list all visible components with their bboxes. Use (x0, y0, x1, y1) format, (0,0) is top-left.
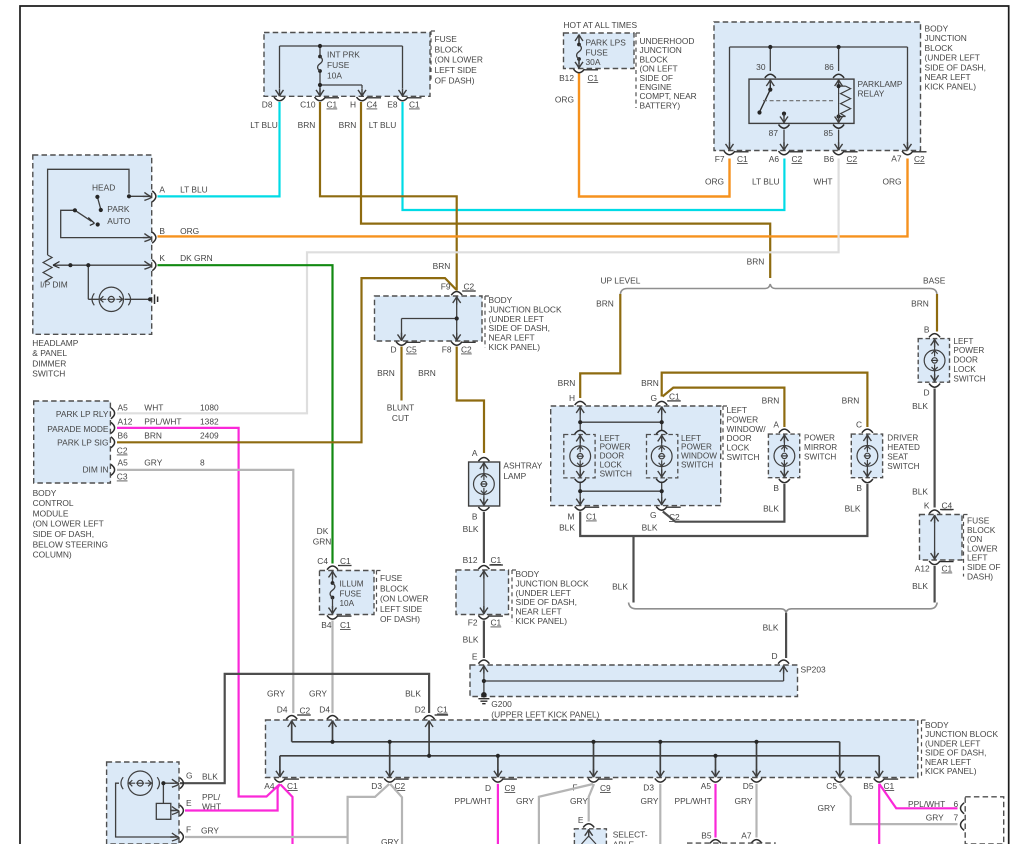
pin K C4 (right fuse block) (924, 501, 954, 514)
pin D5 (bottom) (743, 778, 762, 791)
svg-text:BRN: BRN (433, 261, 451, 271)
svg-text:30A: 30A (586, 57, 601, 67)
fuse INT PRK 10A (318, 55, 323, 73)
svg-text:B4: B4 (321, 620, 332, 630)
svg-text:BRN: BRN (747, 257, 765, 267)
svg-text:BRN: BRN (762, 396, 780, 406)
pin C10 C1 (300, 97, 339, 109)
svg-text:ORG: ORG (882, 177, 901, 187)
svg-text:SWITCH: SWITCH (32, 369, 65, 379)
svg-text:K: K (924, 501, 930, 511)
pin F (170, 833, 179, 841)
svg-text:B5: B5 (701, 831, 712, 841)
wire LT BLU E8 to relay A6 (403, 102, 785, 210)
wire BLK lamp G to D2 C1 (180, 674, 429, 783)
svg-text:C4: C4 (317, 556, 328, 566)
svg-text:BLK: BLK (763, 623, 779, 633)
svg-text:POWER: POWER (804, 434, 835, 443)
svg-text:C2: C2 (461, 345, 472, 355)
svg-text:BRN: BRN (298, 120, 316, 130)
wire GRY D3 down (659, 784, 661, 844)
svg-text:A5: A5 (118, 403, 129, 413)
svg-text:DASH): DASH) (967, 571, 993, 581)
svg-text:C1: C1 (588, 73, 599, 83)
svg-text:F7: F7 (715, 154, 725, 164)
svg-text:B: B (159, 226, 165, 236)
left power window/door lock switch assembly (551, 406, 721, 506)
body junction block (bottom, large) (266, 720, 918, 778)
relay switch contacts (766, 80, 774, 88)
svg-text:C: C (856, 420, 862, 430)
svg-text:A4: A4 (264, 781, 275, 791)
svg-text:KICK PANEL): KICK PANEL) (925, 766, 977, 776)
svg-text:LEFT: LEFT (681, 434, 701, 443)
pin F2 C1 (468, 615, 503, 627)
fuse block FB1 (on lower left side of dash) (264, 33, 430, 97)
junction dots on buses (330, 740, 334, 744)
svg-text:D: D (390, 345, 396, 355)
pin D4 (top) (319, 705, 338, 720)
bottom edge arrows (276, 769, 284, 777)
svg-text:BLK: BLK (405, 689, 421, 699)
svg-text:LEFT: LEFT (953, 337, 973, 346)
svg-text:F: F (186, 825, 191, 835)
svg-text:GRY: GRY (381, 837, 399, 844)
svg-text:INT PRK: INT PRK (327, 50, 360, 60)
svg-text:C3: C3 (117, 472, 128, 482)
svg-text:C2: C2 (117, 446, 128, 456)
wire GRY DIM IN to D4 C2 (117, 470, 293, 713)
svg-text:BRN: BRN (842, 396, 860, 406)
svg-text:C1: C1 (942, 564, 953, 574)
svg-text:ABLE: ABLE (613, 840, 635, 844)
svg-text:LEFT: LEFT (600, 434, 620, 443)
wire GRY D5 to A7 (755, 784, 757, 838)
svg-text:DK: DK (317, 526, 329, 536)
svg-text:GRY: GRY (570, 796, 588, 806)
connector box (bottom right) (961, 797, 1004, 844)
pin C5 (bottom) (826, 778, 845, 791)
svg-text:D8: D8 (262, 100, 273, 110)
svg-text:BLUNT: BLUNT (387, 403, 414, 413)
svg-text:JUNCTION: JUNCTION (925, 33, 967, 43)
svg-text:86: 86 (824, 62, 834, 72)
svg-text:1382: 1382 (200, 416, 219, 426)
svg-text:G: G (186, 771, 193, 781)
side text: fuse block (ILLUM) location (377, 571, 429, 625)
svg-text:GRN: GRN (313, 537, 332, 547)
wire GRY D3 C2 left branch (348, 784, 390, 844)
svg-text:LT BLU: LT BLU (250, 120, 278, 130)
svg-text:M: M (568, 512, 575, 522)
power mirror switch (768, 420, 837, 494)
svg-text:B12: B12 (559, 73, 574, 83)
headlamp & panel dimmer switch (33, 155, 158, 334)
left power door lock switch (right side) (918, 325, 986, 398)
selectable module box (574, 815, 647, 844)
resistor square (156, 803, 171, 819)
svg-text:GRY: GRY (201, 826, 219, 836)
svg-text:PARADE MODE: PARADE MODE (47, 424, 109, 434)
svg-text:BLK: BLK (463, 635, 479, 645)
bus line 2 (280, 756, 879, 774)
svg-text:C1: C1 (884, 781, 895, 791)
svg-text:BASE: BASE (923, 276, 946, 286)
svg-text:D3: D3 (371, 781, 382, 791)
svg-text:7: 7 (954, 813, 959, 823)
wire GRY B4 to D4 (331, 621, 333, 714)
fuse ILLUM 10A (330, 581, 335, 599)
svg-text:FUSE: FUSE (340, 589, 362, 598)
svg-text:A5: A5 (701, 781, 712, 791)
svg-text:B6: B6 (824, 154, 835, 164)
svg-text:ORG: ORG (705, 177, 724, 187)
svg-text:B: B (856, 483, 862, 493)
svg-text:A: A (472, 448, 478, 458)
svg-text:BLOCK: BLOCK (925, 43, 954, 53)
svg-text:HEATED: HEATED (887, 443, 920, 452)
instrument cluster box (clipped at bottom) (687, 842, 776, 844)
svg-text:SELECT-: SELECT- (613, 830, 648, 840)
svg-text:PPL/WHT: PPL/WHT (908, 799, 945, 809)
svg-text:I/P DIM: I/P DIM (40, 280, 68, 290)
svg-text:LT BLU: LT BLU (180, 185, 208, 195)
svg-text:BRN: BRN (144, 431, 162, 441)
pin D2 C1 (top) (415, 705, 448, 720)
svg-text:B: B (773, 483, 779, 493)
pin B (143, 234, 152, 242)
wire BRN split left to window/door switch H (580, 294, 620, 398)
svg-text:UP LEVEL: UP LEVEL (601, 276, 641, 286)
svg-text:BELOW STEERING: BELOW STEERING (33, 539, 108, 549)
pin A (143, 192, 152, 200)
svg-text:BLK: BLK (463, 524, 479, 534)
wire GRY lamp F joining branch (185, 836, 348, 838)
svg-text:K: K (159, 253, 165, 263)
wire 87 to A6 / 85 to B6 inside block (784, 130, 839, 147)
svg-text:10A: 10A (340, 599, 355, 608)
svg-text:GRY: GRY (144, 458, 162, 468)
svg-text:GRY: GRY (818, 803, 836, 813)
pin B12 C1 (559, 69, 598, 83)
svg-text:C4: C4 (942, 501, 953, 511)
wire BRN F8 C2 to ashtray lamp A (457, 347, 484, 454)
svg-text:PARKLAMP: PARKLAMP (858, 79, 903, 89)
pin G (170, 779, 179, 787)
relay pin 30 (765, 74, 776, 78)
wire LT BLU D8 to headlamp switch pin A (158, 102, 280, 196)
wire BLK A12 to brace (933, 566, 935, 603)
wire GRY D3 C2 right branch (390, 784, 402, 844)
svg-text:D2: D2 (415, 705, 426, 715)
svg-text:B: B (472, 512, 478, 522)
pin 6 (961, 803, 965, 814)
svg-text:RELAY: RELAY (858, 89, 885, 99)
svg-text:BRN: BRN (641, 378, 659, 388)
svg-text:BLK: BLK (912, 487, 928, 497)
wire PPL/WHT A4 C1 down (281, 785, 293, 844)
wire BLK G C2 to mirror B (663, 484, 785, 522)
svg-text:E: E (578, 815, 584, 825)
pin E (G200 block) (472, 652, 489, 664)
svg-text:PARK: PARK (107, 204, 130, 214)
top edge arrows (288, 721, 296, 729)
svg-text:E: E (472, 652, 478, 662)
svg-text:D5: D5 (743, 781, 754, 791)
svg-text:POWER: POWER (600, 443, 631, 452)
svg-text:85: 85 (824, 128, 834, 138)
pin B5 (instrument cluster) (701, 831, 721, 844)
left power window switch (inner) (647, 435, 678, 478)
svg-text:KICK PANEL): KICK PANEL) (516, 616, 568, 626)
relay pin 87 (779, 125, 790, 129)
underhood junction block fuse box (564, 33, 635, 69)
svg-text:ORG: ORG (555, 95, 574, 105)
relay coil (835, 80, 843, 88)
pin D SP203 (771, 651, 789, 664)
svg-text:F8: F8 (442, 345, 452, 355)
svg-text:DIM IN: DIM IN (82, 464, 108, 474)
svg-text:C2: C2 (300, 706, 311, 716)
svg-text:KICK PANEL): KICK PANEL) (489, 342, 541, 352)
svg-text:MIRROR: MIRROR (804, 443, 837, 452)
svg-text:C10: C10 (300, 100, 316, 110)
pin H (569, 393, 586, 405)
svg-text:GRY: GRY (735, 796, 753, 806)
svg-text:BRN: BRN (911, 299, 929, 309)
svg-text:C1: C1 (287, 781, 298, 791)
wire BRN C10 to F9 (320, 102, 457, 291)
svg-text:D: D (485, 783, 491, 793)
wire PPL/WHT B5 C1 to connector 6 (879, 784, 957, 809)
svg-text:(ON LOWER: (ON LOWER (435, 55, 483, 65)
wire BLK brace to SP203 D (785, 613, 787, 658)
wire GRY F C9 left branch down (539, 784, 593, 844)
svg-text:WINDOW: WINDOW (681, 452, 717, 461)
svg-text:PPL/WHT: PPL/WHT (455, 796, 492, 806)
pin C4 C1 (ILLUM top) (317, 556, 351, 570)
svg-text:D4: D4 (319, 705, 330, 715)
panel lamp (92, 287, 131, 311)
svg-text:C1: C1 (737, 154, 748, 164)
svg-text:87: 87 (769, 128, 779, 138)
svg-text:DK GRN: DK GRN (180, 253, 213, 263)
svg-text:BRN: BRN (558, 378, 576, 388)
svg-text:C9: C9 (600, 783, 611, 793)
svg-text:GRY: GRY (309, 689, 327, 699)
svg-text:LT BLU: LT BLU (369, 120, 397, 130)
svg-text:2409: 2409 (200, 431, 219, 441)
svg-text:SWITCH: SWITCH (804, 452, 836, 461)
svg-text:BLK: BLK (202, 772, 218, 782)
svg-text:(ON LOWER: (ON LOWER (380, 594, 428, 604)
parklamp relay box (749, 79, 854, 123)
body junction block (relay housing) (714, 22, 921, 151)
pin D4 C2 (top) (277, 705, 311, 720)
pin K (143, 261, 152, 269)
instrument panel lamp (bottom left) (107, 762, 184, 844)
svg-text:E: E (186, 798, 192, 808)
svg-text:A: A (159, 185, 165, 195)
pin A7 C2 (891, 151, 926, 164)
svg-text:D: D (923, 388, 929, 398)
svg-text:FUSE: FUSE (380, 573, 403, 583)
svg-text:LEFT SIDE: LEFT SIDE (380, 604, 423, 614)
svg-text:C1: C1 (340, 556, 351, 566)
svg-text:BLK: BLK (912, 401, 928, 411)
svg-text:(ON LOWER LEFT: (ON LOWER LEFT (33, 519, 104, 529)
svg-text:ORG: ORG (180, 226, 199, 236)
svg-text:PARK LP SIG: PARK LP SIG (57, 438, 108, 448)
svg-text:8: 8 (200, 458, 205, 468)
svg-text:D: D (771, 651, 777, 661)
svg-text:LAMP: LAMP (503, 471, 526, 481)
svg-text:PARK LP RLY: PARK LP RLY (56, 409, 109, 419)
svg-text:LOCK: LOCK (600, 461, 623, 470)
svg-text:B6: B6 (118, 431, 129, 441)
wire PPL/WHT D C9 down (497, 784, 499, 844)
wire BLK M C1 to heated seat B with drop (580, 484, 867, 536)
pin H C4 (350, 97, 381, 109)
svg-text:BLK: BLK (912, 581, 928, 591)
svg-text:ILLUM: ILLUM (340, 580, 364, 589)
svg-text:POWER: POWER (953, 346, 984, 355)
svg-text:E8: E8 (387, 100, 398, 110)
wire BRN D C5 to blunt cut (400, 347, 402, 401)
svg-text:C2: C2 (914, 154, 925, 164)
svg-text:BODY: BODY (925, 24, 949, 34)
svg-text:DRIVER: DRIVER (887, 434, 918, 443)
pin F8 C2 (442, 342, 476, 355)
wire BRN PARK LP SIG to F9 C2 (117, 278, 456, 442)
svg-text:FUSE: FUSE (327, 60, 350, 70)
wire GRY C5 to connector 7 (840, 784, 958, 824)
lamp symbol (121, 771, 160, 795)
pin D8 (262, 97, 285, 109)
side text: underhood junction block location (636, 33, 697, 110)
body junction block (F9 / D C5 / F8 C2) (375, 296, 483, 341)
svg-text:WHT: WHT (144, 403, 163, 413)
svg-text:DOOR: DOOR (953, 356, 978, 365)
pin D C9 (bottom) (485, 778, 517, 793)
svg-text:BODY: BODY (33, 488, 57, 498)
svg-text:30: 30 (756, 62, 766, 72)
svg-text:& PANEL: & PANEL (32, 348, 67, 358)
svg-text:F2: F2 (468, 618, 478, 628)
svg-text:A12: A12 (118, 416, 133, 426)
svg-text:DOOR: DOOR (600, 452, 625, 461)
pin B4 C1 (ILLUM bottom) (321, 615, 351, 630)
svg-text:BLOCK: BLOCK (380, 583, 409, 593)
pin D3 (bottom) (643, 778, 666, 792)
svg-text:A: A (773, 420, 779, 430)
pin A5 (bottom) (701, 778, 721, 791)
svg-text:A12: A12 (915, 564, 930, 574)
svg-text:GRY: GRY (641, 796, 659, 806)
svg-text:C5: C5 (826, 781, 837, 791)
svg-text:WHT: WHT (813, 177, 832, 187)
pin A6 C2 (769, 151, 803, 164)
svg-text:SWITCH: SWITCH (953, 374, 985, 383)
svg-text:C9: C9 (505, 783, 516, 793)
wire BRN G C1 to power mirror switch A (663, 388, 785, 427)
pin A12 C1 (915, 561, 954, 574)
svg-text:C1: C1 (409, 100, 420, 110)
svg-text:CONTROL: CONTROL (33, 498, 74, 508)
wire GRY F C9 to selectable dimming E (589, 784, 594, 822)
ground G200 (481, 692, 487, 698)
svg-text:ASHTRAY: ASHTRAY (503, 461, 542, 471)
svg-text:COLUMN): COLUMN) (33, 550, 72, 560)
svg-text:PARK LPS: PARK LPS (586, 38, 627, 48)
pin M C1 (568, 507, 600, 522)
splice block SP203 / ground G200 (470, 665, 798, 704)
pin B5 C1 (bottom) (863, 778, 898, 791)
side text: fuse block (right) location (964, 515, 1001, 582)
fuse block (ILLUM fuse) (320, 571, 375, 615)
pin B12 C1 (mid junction block) (463, 555, 503, 569)
wire BLK LPDL D to fuse block K (933, 389, 935, 508)
wire DK GRN K to ILLUM fuse C4 (158, 265, 333, 563)
svg-text:SWITCH: SWITCH (681, 461, 713, 470)
wire PPL/WHT A5 to B5 (714, 784, 716, 838)
svg-text:H: H (350, 100, 356, 110)
svg-text:BRN: BRN (418, 368, 436, 378)
side text: body junction block (mid) location (512, 569, 589, 626)
svg-text:B: B (924, 325, 930, 335)
svg-text:HEADLAMP: HEADLAMP (32, 338, 78, 348)
svg-text:SWITCH: SWITCH (887, 462, 919, 471)
svg-text:GRY: GRY (267, 689, 285, 699)
svg-text:C1: C1 (491, 618, 502, 628)
svg-text:A5: A5 (118, 458, 129, 468)
pin F C9 (bottom) (572, 778, 612, 793)
side text: body junction block (mid-left) location (485, 295, 562, 352)
pin A4 C1 (bottom) (264, 778, 299, 791)
svg-text:BLK: BLK (612, 582, 628, 592)
svg-text:C2: C2 (792, 154, 803, 164)
pin A7 (instrument cluster) (741, 831, 762, 844)
pin D3 C2 (bottom) (371, 778, 408, 791)
svg-text:6: 6 (954, 799, 959, 809)
svg-text:SIDE OF DASH,: SIDE OF DASH, (925, 62, 986, 72)
node BRN split UP LEVEL / BASE (601, 257, 946, 296)
svg-text:C1: C1 (491, 555, 502, 565)
svg-text:C1: C1 (327, 100, 338, 110)
svg-text:C1: C1 (340, 620, 351, 630)
svg-text:H: H (569, 393, 575, 403)
svg-text:C1: C1 (437, 705, 448, 715)
body control module (34, 401, 115, 483)
svg-text:C2: C2 (847, 154, 858, 164)
svg-text:G: G (650, 510, 657, 520)
left power door lock switch (inner) (564, 435, 595, 478)
svg-text:DIMMER: DIMMER (32, 358, 66, 368)
fuse PARK LPS 30A (577, 43, 582, 61)
svg-text:BLK: BLK (845, 504, 861, 514)
svg-text:FUSE: FUSE (435, 34, 458, 44)
svg-text:LT BLU: LT BLU (752, 177, 780, 187)
svg-text:PPL/WHT: PPL/WHT (675, 796, 712, 806)
wire BLK ashtray B to B12 C1 (483, 512, 485, 563)
svg-text:D4: D4 (277, 705, 288, 715)
svg-text:D3: D3 (643, 783, 654, 793)
svg-text:PPL/: PPL/ (202, 792, 221, 802)
svg-text:OF DASH): OF DASH) (380, 614, 420, 624)
side text: body junction block (bottom) location (922, 720, 999, 777)
svg-text:AUTO: AUTO (107, 216, 131, 226)
svg-text:BLOCK: BLOCK (435, 44, 464, 54)
